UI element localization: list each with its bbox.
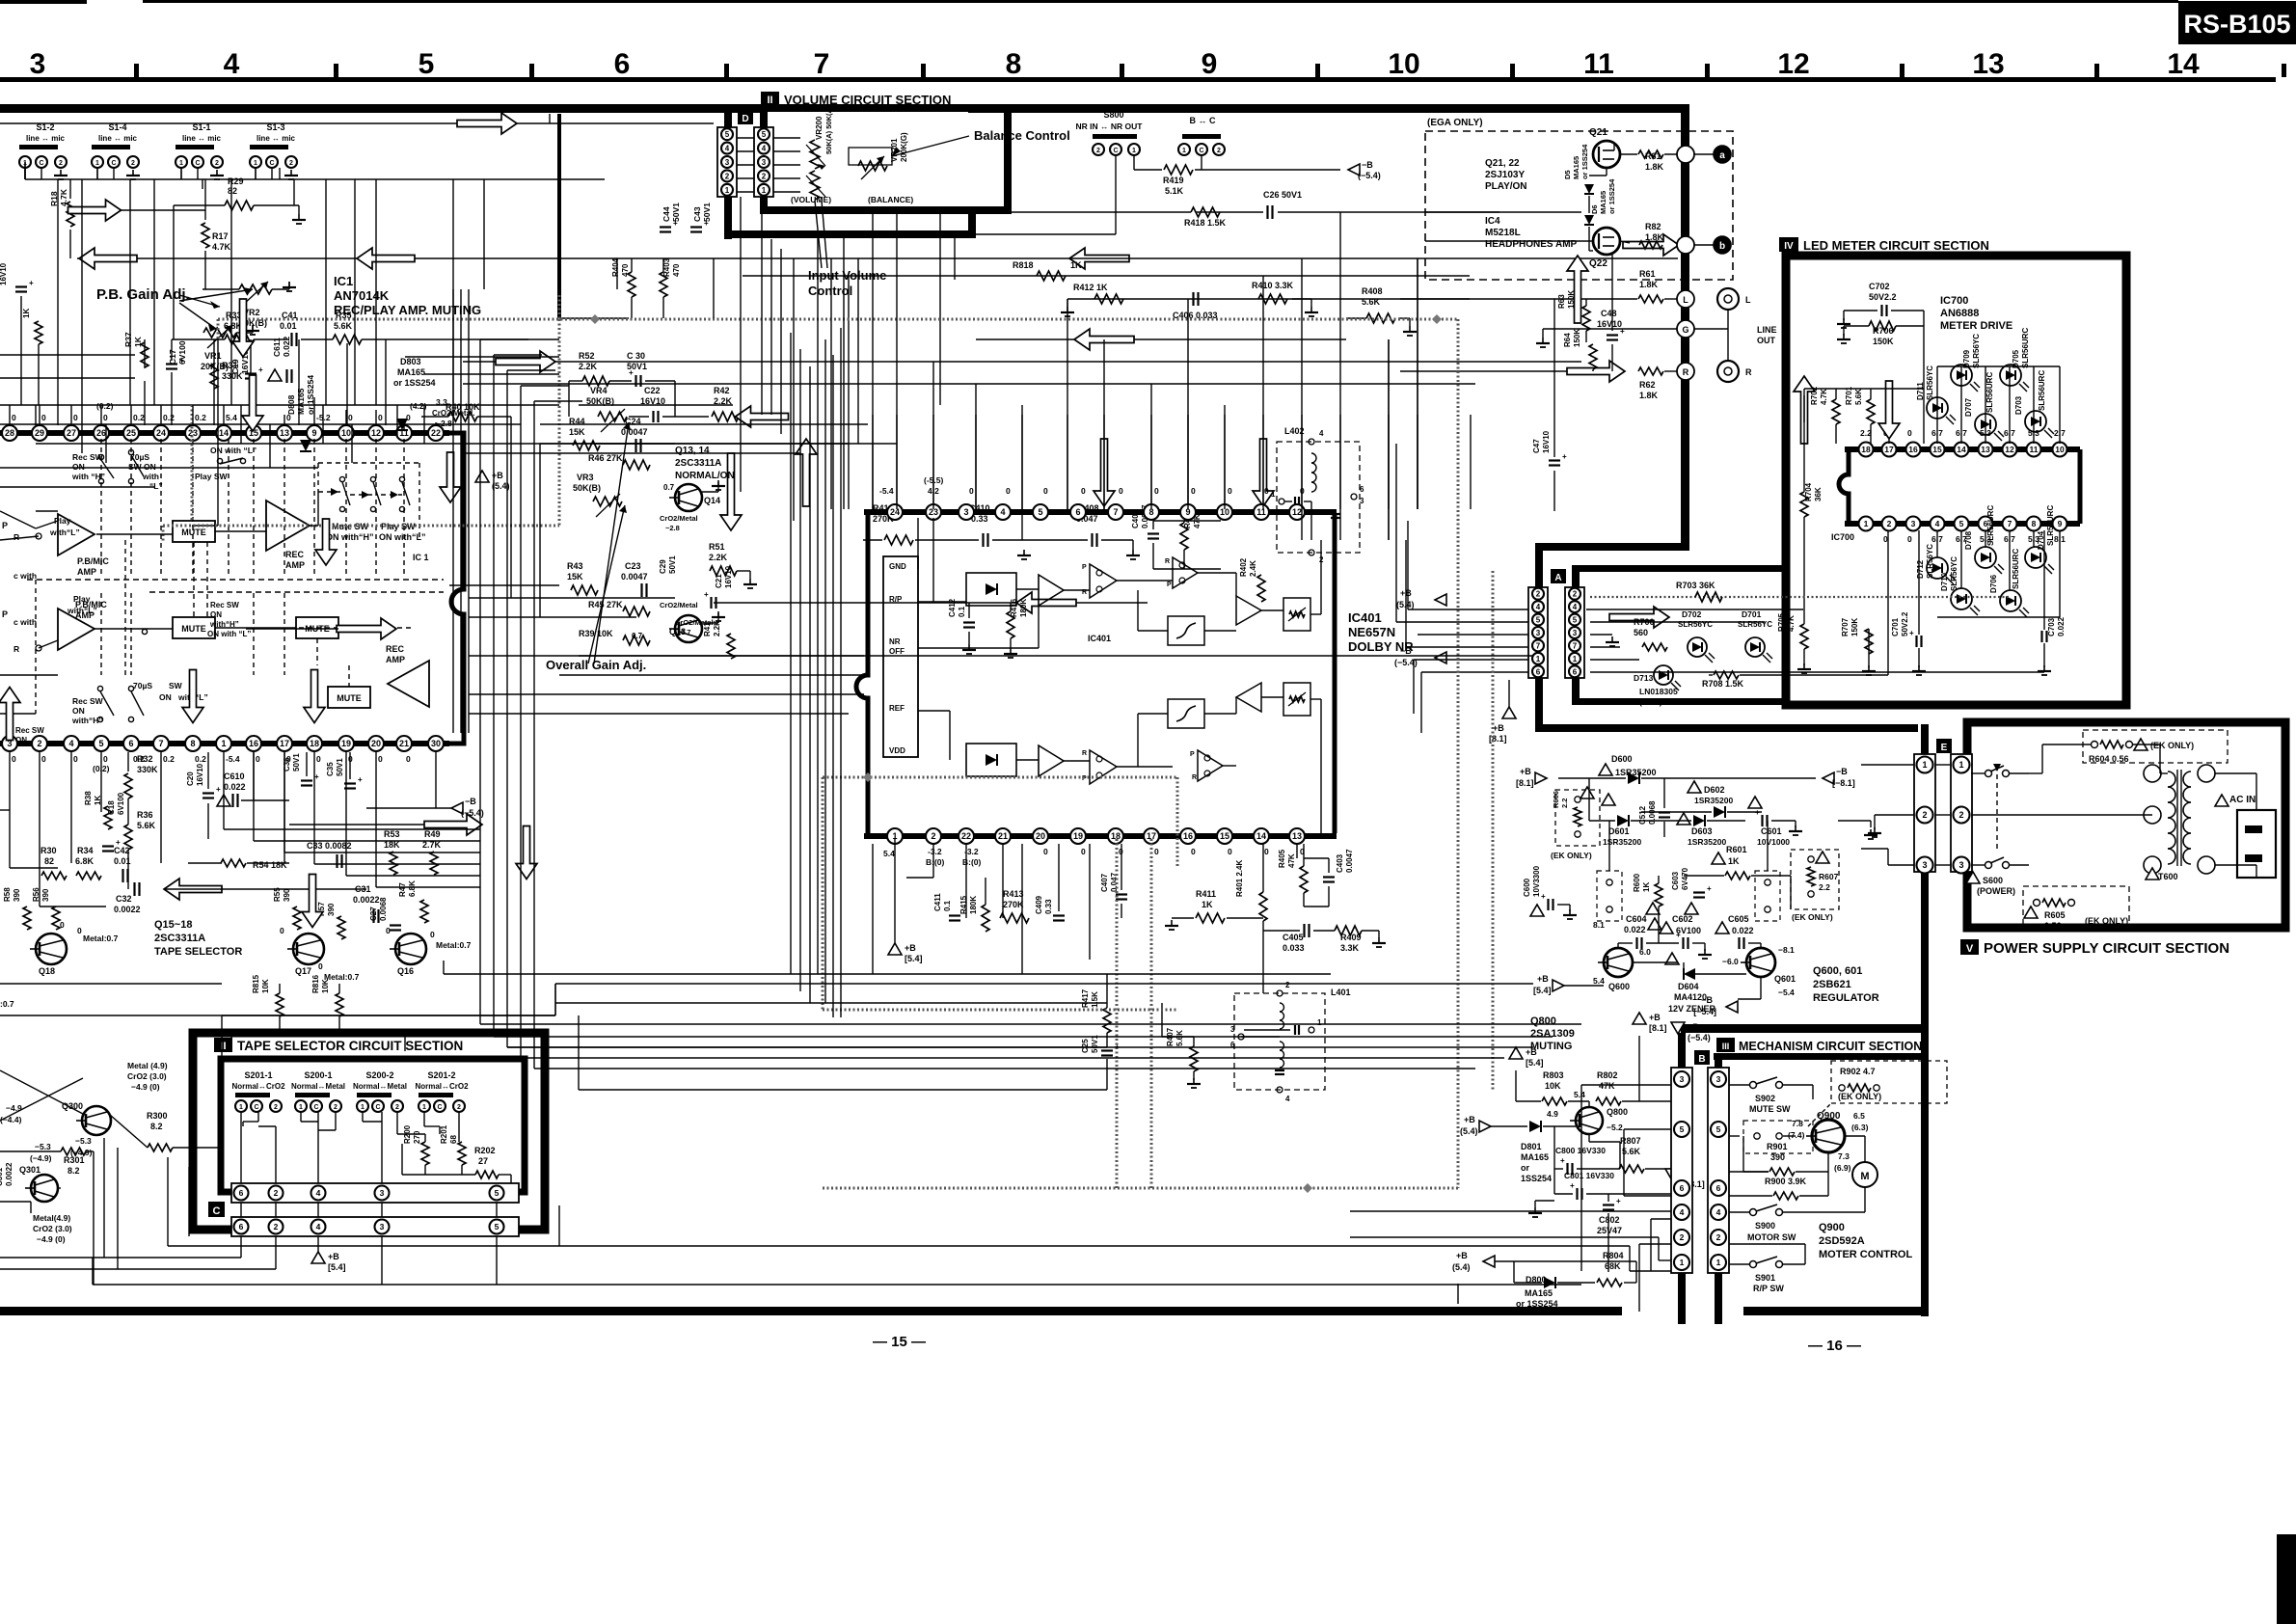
svg-text:AN7014K: AN7014K: [334, 288, 390, 303]
svg-text:1SS254: 1SS254: [1521, 1174, 1552, 1183]
svg-text:0.022: 0.022: [224, 782, 246, 792]
resistor R406 47K: [1180, 523, 1188, 550]
svg-text:R: R: [1082, 750, 1087, 757]
svg-text:5.6K: 5.6K: [334, 321, 353, 331]
svg-text:2: 2: [1096, 148, 1100, 154]
section border: A inner top horizontal: [1572, 565, 1786, 572]
wire S1 bus: [25, 178, 605, 180]
svg-text:R53: R53: [384, 829, 400, 839]
svg-text:30: 30: [431, 739, 441, 748]
svg-text:1: 1: [179, 160, 183, 167]
wires under IC401: [932, 844, 934, 878]
svg-text:TAPE SELECTOR CIRCUIT SECTION: TAPE SELECTOR CIRCUIT SECTION: [237, 1039, 463, 1053]
IC401 pin 3: [959, 504, 974, 520]
svg-text:MUTE: MUTE: [337, 693, 362, 703]
wires IC1 pins up: [9, 405, 11, 425]
svg-text:12: 12: [2005, 445, 2014, 454]
svg-text:E: E: [1941, 743, 1948, 753]
section border: A-strip upper stub: [1535, 543, 1543, 591]
svg-text:0: 0: [1228, 847, 1232, 856]
ruler tick: [1510, 64, 1515, 77]
svg-text:+B: +B: [1526, 1047, 1537, 1057]
svg-text:12: 12: [1292, 507, 1302, 517]
LED D713 LN018305 REC: [1654, 665, 1673, 685]
ground E-side: [1870, 829, 1872, 835]
svg-text:−B: −B: [1701, 995, 1713, 1005]
svg-text:180K: 180K: [969, 896, 978, 914]
IC1 pin 23: [185, 425, 201, 441]
svg-text:5: 5: [495, 1188, 500, 1198]
svg-text:68: 68: [449, 1135, 458, 1144]
svg-text:1.8K: 1.8K: [1645, 232, 1664, 242]
IC700 pin 6: [1979, 517, 1993, 531]
svg-text:D706: D706: [1989, 574, 1998, 593]
svg-text:2: 2: [1217, 148, 1221, 154]
svg-text:+: +: [1570, 1181, 1575, 1190]
svg-text:P.B. Gain Adj.: P.B. Gain Adj.: [96, 286, 190, 303]
IC401 internal control block: [883, 556, 918, 757]
svg-text:SLR56YC: SLR56YC: [1950, 556, 1958, 591]
svg-text:6: 6: [128, 739, 133, 748]
svg-text:C603: C603: [1671, 871, 1680, 890]
bottom right black mark: [2277, 1534, 2296, 1624]
svg-text:6.5: 6.5: [1853, 1111, 1865, 1121]
section border: step horizontal: [724, 230, 976, 238]
section border: A inner bottom horizontal: [1572, 698, 1786, 705]
svg-text:8: 8: [1006, 48, 1022, 80]
svg-text:REF: REF: [889, 704, 905, 713]
svg-text:IC401: IC401: [1348, 610, 1382, 625]
svg-text:2.2: 2.2: [1819, 882, 1830, 892]
svg-text:50V1: 50V1: [671, 203, 681, 222]
svg-text:R51: R51: [709, 542, 725, 552]
svg-text:0.33: 0.33: [1044, 899, 1053, 914]
svg-text:0: 0: [280, 926, 284, 935]
svg-text:S901: S901: [1755, 1273, 1775, 1283]
svg-text:MUTE: MUTE: [181, 624, 206, 634]
svg-text:−5.3: −5.3: [75, 1136, 92, 1146]
balance pot VR201 200K(G): [858, 161, 887, 171]
svg-text:VOLUME CIRCUIT SECTION: VOLUME CIRCUIT SECTION: [784, 93, 951, 107]
resistor R418 1.5K: [1191, 207, 1220, 217]
wire Q21-Q22 chain: [1606, 168, 1607, 176]
svg-text:−4.9 (0): −4.9 (0): [131, 1082, 160, 1092]
svg-text:SLR56URC: SLR56URC: [2046, 505, 2055, 546]
svg-text:C17: C17: [168, 349, 177, 365]
svg-text:0: 0: [1081, 847, 1086, 856]
more long horizontals center: [596, 443, 849, 445]
svg-text:IV: IV: [1784, 241, 1794, 252]
tape strip row 2: [231, 1217, 519, 1236]
svg-text:4: 4: [316, 1222, 321, 1232]
svg-text:9: 9: [311, 428, 316, 438]
IC401 amp upper: [1039, 575, 1064, 606]
extra verticals center-left bundle: [452, 289, 454, 733]
svg-text:Normal↔CrO2: Normal↔CrO2: [415, 1082, 469, 1091]
ruler tick: [134, 64, 139, 77]
LED D712 SLR56YC: [1927, 557, 1948, 579]
svg-text:3: 3: [1716, 1074, 1721, 1084]
left block dashes near pins: [100, 593, 102, 675]
svg-text:+B: +B: [328, 1252, 339, 1261]
svg-text:50V1: 50V1: [336, 758, 344, 776]
svg-text:3: 3: [380, 1222, 385, 1232]
svg-text:R47: R47: [398, 882, 407, 897]
badge D: [738, 110, 753, 124]
svg-text:1: 1: [1716, 1258, 1721, 1267]
svg-text:NE657N: NE657N: [1348, 625, 1395, 639]
IC1 pin 11: [396, 425, 412, 441]
extra center horizontals: [616, 258, 618, 289]
svg-text:AMP: AMP: [77, 567, 96, 577]
section box V POWER SUPPLY CIRCUIT SECTION: [1967, 722, 2285, 928]
svg-text:20: 20: [371, 739, 381, 748]
svg-text:b: b: [1719, 241, 1725, 252]
svg-text:−4.9: −4.9: [6, 1103, 22, 1113]
svg-text:15K: 15K: [567, 572, 583, 582]
left mesh horizontal wires above IC1: [0, 486, 154, 488]
svg-text:R32: R32: [137, 754, 153, 764]
IC U IC401 NE657N body: [864, 509, 1337, 515]
svg-text:SLR56YC: SLR56YC: [1972, 334, 1981, 368]
arrow down near C19: [232, 299, 254, 357]
svg-text:3: 3: [1680, 1074, 1685, 1084]
svg-text:R418 1.5K: R418 1.5K: [1184, 218, 1227, 228]
svg-text:(EGA ONLY): (EGA ONLY): [1427, 118, 1483, 128]
svg-text:0.022: 0.022: [1624, 925, 1646, 934]
svg-text:R600: R600: [1633, 873, 1641, 892]
svg-text:C610: C610: [224, 771, 245, 781]
svg-text:1: 1: [1864, 519, 1869, 528]
svg-text:Normal↔CrO2: Normal↔CrO2: [231, 1082, 285, 1091]
IC1 pin 9: [307, 425, 322, 441]
svg-text:14: 14: [1256, 831, 1266, 841]
svg-text:29: 29: [35, 428, 44, 438]
arrow right on top bus: [457, 113, 517, 134]
svg-text:Q600, 601: Q600, 601: [1813, 965, 1862, 977]
svg-text:L: L: [1683, 295, 1688, 305]
svg-text:1: 1: [239, 1104, 243, 1111]
flag -B -5.4 muting: [1671, 1022, 1685, 1034]
connector A strip 2: [1565, 587, 1584, 678]
svg-text:R401 2.4K: R401 2.4K: [1235, 860, 1244, 897]
connector B strip 2: [1708, 1068, 1729, 1273]
svg-text:(6.3): (6.3): [1851, 1123, 1869, 1132]
svg-text:~2.8: ~2.8: [436, 419, 452, 428]
svg-text:+: +: [1562, 452, 1567, 461]
IC401 pin 5: [1033, 504, 1048, 520]
tape strip row 1: [231, 1183, 519, 1203]
S600 dashed link: [1996, 766, 1998, 853]
extra horizontals left: [0, 354, 135, 356]
op-amp PB/MIC AMP lower: [58, 609, 95, 650]
svg-text:c with: c with: [14, 571, 37, 581]
power wires: [1971, 764, 1972, 766]
badge C: [208, 1202, 225, 1217]
resistor R412 1K: [1067, 298, 1470, 300]
IC1 pin 15: [246, 425, 261, 441]
flag +B 5.4 bottom: [1483, 1256, 1495, 1267]
wire long y375 with right arrow: [463, 361, 1581, 363]
switch S901 RP SW: [1750, 1261, 1757, 1268]
diode D602 1SR35200: [1688, 781, 1701, 793]
LED D708 SLR56URC: [1975, 547, 1996, 568]
svg-text:(EK ONLY): (EK ONLY): [2150, 741, 2194, 750]
svg-text:IC700: IC700: [1831, 532, 1854, 542]
svg-text:2SA1309: 2SA1309: [1530, 1028, 1575, 1040]
section border: center block right: [1681, 104, 1689, 551]
IC1 pin 5: [94, 736, 109, 751]
IC1 pin 21: [396, 736, 412, 751]
svg-text:4: 4: [1536, 603, 1541, 611]
R604 dashed box EK ONLY: [2083, 730, 2228, 763]
ruler tick: [334, 64, 338, 77]
svg-text:S200-2: S200-2: [365, 1070, 393, 1080]
resistor R419 5.1K: [1133, 155, 1135, 170]
svg-text:28: 28: [5, 428, 14, 438]
arrow right near R18: [68, 200, 122, 221]
IC1 pin 17: [277, 736, 292, 751]
svg-text:7: 7: [158, 739, 163, 748]
svg-text:ON with “L”: ON with “L”: [207, 630, 251, 638]
svg-text:7: 7: [2008, 519, 2012, 528]
svg-text:0.033: 0.033: [1283, 943, 1305, 953]
svg-text:C: C: [254, 1104, 258, 1111]
wire left vertical drops: [69, 179, 71, 199]
diode D601 1SR35200: [1602, 794, 1615, 805]
wires from IC1 right side down: [469, 655, 1533, 657]
svg-text:R816: R816: [311, 974, 320, 993]
svg-text:3: 3: [725, 158, 730, 167]
svg-text:R61: R61: [1639, 269, 1656, 279]
svg-text:PLAY/ON: PLAY/ON: [1485, 181, 1527, 192]
capacitor C17 6V100: [166, 363, 177, 365]
svg-text:(−5.4): (−5.4): [1688, 1033, 1711, 1042]
svg-text:D702: D702: [1682, 609, 1702, 619]
svg-text:82: 82: [44, 856, 54, 866]
flag -B -5.4 regulator out: [1726, 1001, 1738, 1013]
svg-text:Q300: Q300: [62, 1101, 83, 1111]
svg-text:[8.1]: [8.1]: [1649, 1023, 1667, 1033]
capacitor C44 50V1: [660, 226, 671, 228]
svg-text:22: 22: [961, 831, 971, 841]
svg-text:0: 0: [386, 926, 391, 935]
svg-text:with“L”: with“L”: [67, 606, 97, 615]
arrow left y432: [736, 406, 789, 427]
svg-text:Metal(4.9): Metal(4.9): [33, 1213, 70, 1223]
wire horizontals upper left: [0, 404, 559, 406]
svg-text:III: III: [1722, 1042, 1730, 1051]
wires IC1 to center block: [449, 584, 559, 586]
svg-text:“L”: “L”: [149, 481, 163, 491]
svg-text:LINE: LINE: [1757, 325, 1777, 335]
svg-text:0: 0: [1264, 847, 1269, 856]
svg-text:26: 26: [96, 428, 106, 438]
svg-text:R54 18K: R54 18K: [253, 860, 287, 870]
svg-text:180K: 180K: [1019, 599, 1028, 617]
svg-text:+: +: [629, 368, 634, 377]
flag +B 5.4 right of IC401: [1435, 594, 1446, 606]
svg-text:6V100: 6V100: [177, 340, 187, 365]
svg-text:6: 6: [1680, 1183, 1685, 1193]
R607 dashed box EK ONLY: [1791, 850, 1839, 909]
svg-text:S200-1: S200-1: [304, 1070, 332, 1080]
svg-text:C31: C31: [355, 884, 371, 894]
svg-text:5: 5: [419, 48, 435, 80]
svg-text:6V470: 6V470: [1681, 867, 1689, 890]
svg-text:+: +: [1755, 808, 1760, 817]
transistor Q900: [1812, 1120, 1845, 1152]
svg-text:Q800: Q800: [1530, 1015, 1556, 1027]
svg-text:R405: R405: [1278, 849, 1286, 868]
L401 dashed box: [1234, 993, 1325, 1090]
diode D603 1SR35200: [1677, 813, 1690, 825]
svg-text:Play: Play: [73, 594, 91, 604]
svg-text:0: 0: [316, 754, 321, 764]
svg-text:+: +: [1909, 629, 1914, 637]
LED D701 SLR56YC: [1745, 637, 1765, 657]
svg-text:R708 1.5K: R708 1.5K: [1702, 679, 1744, 689]
transistor Q18: [36, 934, 67, 964]
resistor R37 1K: [141, 342, 149, 367]
svg-text:5.1K: 5.1K: [1165, 186, 1184, 196]
section border: left block top: [0, 104, 728, 113]
svg-text:13: 13: [1972, 48, 2004, 80]
svg-text:R: R: [14, 644, 19, 654]
svg-text:4: 4: [762, 145, 767, 153]
svg-text:line ↔ mic: line ↔ mic: [257, 134, 296, 143]
connector A strip 1: [1528, 587, 1548, 678]
svg-text:LED METER CIRCUIT SECTION: LED METER CIRCUIT SECTION: [1803, 238, 1989, 253]
left edge small wires: [0, 713, 36, 715]
svg-text:21: 21: [998, 831, 1008, 841]
IC401 diode box lower: [966, 744, 1016, 776]
svg-text:0: 0: [969, 486, 974, 496]
IC1 pin 7: [153, 736, 169, 751]
svg-text:R: R: [1192, 774, 1197, 781]
svg-text:REC: REC: [285, 550, 305, 559]
svg-text:R58: R58: [3, 887, 12, 902]
svg-text:C: C: [269, 160, 274, 167]
tape selector wires: [240, 1112, 242, 1183]
svg-text:2SC3311A: 2SC3311A: [675, 458, 721, 469]
IC401 pin 17: [1144, 828, 1159, 844]
svg-text:MA165: MA165: [1599, 191, 1607, 214]
svg-text:20: 20: [1036, 831, 1045, 841]
svg-text:1: 1: [725, 186, 730, 195]
connector B strip 1: [1671, 1068, 1692, 1273]
svg-text:0.0068: 0.0068: [379, 897, 388, 921]
resistor R402 2.4K: [1257, 575, 1265, 602]
svg-text:9: 9: [1202, 48, 1218, 80]
svg-text:R38: R38: [84, 791, 93, 805]
svg-text:10K: 10K: [261, 979, 270, 993]
LED D703 SLR56URC: [2025, 411, 2046, 432]
svg-text:27: 27: [478, 1156, 488, 1166]
svg-text:C47: C47: [1532, 439, 1541, 453]
svg-text:S201-1: S201-1: [244, 1070, 272, 1080]
resistor R18 4.7K: [67, 202, 74, 227]
wires mechanism to muting: [1580, 1085, 1582, 1271]
svg-text:R707: R707: [1841, 617, 1850, 636]
IC401 pin 9: [1180, 504, 1196, 520]
L402 dashed box: [1277, 442, 1360, 553]
L G R circles on border: [1677, 290, 1694, 308]
svg-text:ON: ON: [210, 610, 222, 619]
svg-text:14: 14: [1957, 445, 1966, 454]
ruler tick: [724, 64, 729, 77]
svg-text:+: +: [216, 785, 221, 794]
svg-text:1: 1: [1922, 760, 1927, 770]
svg-text:C22: C22: [644, 386, 661, 395]
resistor R403 470: [660, 272, 667, 297]
section border: page bottom rule: [0, 1307, 1622, 1315]
svg-text:[5.4]: [5.4]: [1526, 1058, 1544, 1068]
svg-text:D600: D600: [1611, 754, 1633, 764]
svg-text:(5.4): (5.4): [1452, 1262, 1471, 1272]
IC1 pin 29: [32, 425, 47, 441]
svg-text:(−4.9): (−4.9): [30, 1153, 52, 1163]
wire verticals center to IC401: [848, 415, 850, 509]
svg-text:0: 0: [1154, 486, 1159, 496]
svg-text:0.7: 0.7: [663, 483, 675, 492]
IC401 slash box lower: [1168, 699, 1204, 728]
svg-text:2SD592A: 2SD592A: [1819, 1235, 1865, 1247]
svg-text:C611: C611: [272, 338, 282, 357]
svg-text:0: 0: [103, 413, 108, 422]
svg-text:C21: C21: [715, 574, 723, 588]
svg-text:V: V: [1966, 943, 1974, 955]
svg-text:with“L”: with“L”: [49, 528, 80, 537]
section border: A inner bottom stub: [1572, 678, 1580, 705]
svg-text:SW: SW: [169, 681, 183, 690]
LINE OUT jacks: [1717, 288, 1739, 310]
svg-text:1: 1: [95, 160, 99, 167]
wire bundle horizontals bottom center: [480, 1023, 1581, 1025]
regulator vertical wires: [1658, 876, 1660, 883]
svg-text:18: 18: [310, 739, 319, 748]
svg-text:Normal↔Metal: Normal↔Metal: [353, 1082, 407, 1091]
svg-text:1: 1: [1132, 148, 1136, 154]
svg-text:C18: C18: [107, 800, 116, 815]
IC1 pin 28: [2, 425, 17, 441]
svg-text:C601: C601: [1761, 826, 1782, 836]
down arrow near R701: [1878, 381, 1900, 439]
svg-text:50V2.2: 50V2.2: [1901, 611, 1909, 636]
svg-text:R902 4.7: R902 4.7: [1840, 1067, 1876, 1076]
svg-text:OFF: OFF: [889, 647, 905, 656]
svg-text:P: P: [1082, 564, 1087, 571]
svg-text:C701: C701: [1891, 617, 1900, 636]
svg-text:VR1: VR1: [204, 351, 222, 361]
svg-text:2: 2: [131, 160, 135, 167]
svg-text:2: 2: [1887, 519, 1892, 528]
IC1 pin 3: [2, 736, 17, 751]
badge A: [1551, 569, 1566, 583]
svg-text:+: +: [29, 279, 34, 287]
IC700 pin 3: [1906, 517, 1921, 531]
MUTE box 1: [173, 521, 215, 542]
svg-text:IC1: IC1: [334, 274, 353, 288]
svg-text:4.7K: 4.7K: [212, 242, 231, 252]
svg-text:(5.4): (5.4): [1396, 600, 1415, 609]
svg-text:0: 0: [1883, 534, 1888, 544]
svg-text:13: 13: [280, 428, 289, 438]
IC1 pin 24: [153, 425, 169, 441]
svg-text:2: 2: [1536, 590, 1541, 599]
svg-text:4: 4: [725, 145, 730, 153]
svg-text:5.4: 5.4: [1593, 976, 1605, 986]
